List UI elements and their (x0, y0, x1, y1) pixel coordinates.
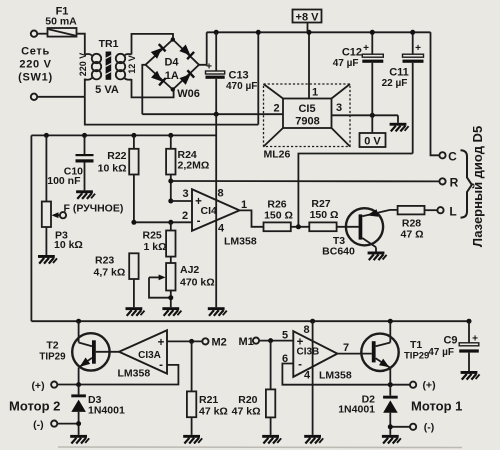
junction R21 (189, 339, 194, 344)
ML26 corner diagonal TR (332, 84, 351, 99)
svg-text:R21: R21 (199, 394, 218, 406)
wire motor2 minus (57, 423, 78, 425)
svg-text:47 µF: 47 µF (428, 347, 454, 358)
wire CI3B output to T1 base (337, 353, 371, 355)
svg-text:LM358: LM358 (118, 368, 151, 380)
junction T1 collector (388, 319, 393, 324)
op-amp CI4 (192, 189, 240, 231)
terminal M2 (202, 338, 208, 344)
wire CI4 pin 3 (171, 200, 192, 202)
junction CI3B power (310, 319, 315, 324)
CI4 power line (pins 8/4) (215, 114, 217, 307)
svg-text:100 nF: 100 nF (47, 175, 81, 187)
label Сеть 220 V (SW1) (18, 46, 53, 84)
ground (R20) (262, 435, 281, 444)
op-amp CI3A (119, 330, 167, 373)
junction C9 (467, 319, 472, 324)
transformer TR1 secondary winding (116, 54, 132, 80)
resistor R20 (266, 341, 275, 435)
svg-text:TIP29: TIP29 (39, 352, 66, 363)
CI3B power line (pins 8/4) (312, 321, 314, 435)
wire R26 to R27 (291, 226, 310, 228)
junction C12 rail (370, 30, 375, 35)
svg-text:12 V: 12 V (127, 55, 137, 74)
svg-text:LM358: LM358 (319, 370, 352, 382)
ML26 corner diagonal BR (332, 128, 351, 147)
ground (P3) (38, 255, 57, 264)
junction CI4 pin3 (168, 199, 173, 204)
wire left feed down to motor rail (30, 135, 32, 321)
wire mains upper to fuse (37, 33, 47, 35)
diode D2 (383, 385, 398, 435)
wire CI3B feedback (282, 364, 410, 385)
svg-text:50 mA: 50 mA (45, 16, 77, 28)
diode bridge top-right (179, 44, 194, 59)
svg-text:2: 2 (182, 210, 188, 222)
resistor R24 (166, 135, 175, 201)
junction R25 top (168, 220, 173, 225)
svg-text:7: 7 (343, 342, 349, 354)
transformer TR1 core (106, 52, 112, 80)
svg-text:CI5: CI5 (298, 103, 315, 115)
junction T2 collector (76, 319, 81, 324)
svg-text:1: 1 (241, 199, 247, 211)
wire CI4 pin 2 (134, 221, 192, 223)
svg-text:5 VA: 5 VA (95, 84, 119, 96)
svg-text:AJ2: AJ2 (180, 264, 199, 276)
junction C10 (82, 133, 87, 138)
svg-text:T2: T2 (46, 340, 58, 352)
svg-text:47 kΩ: 47 kΩ (199, 406, 228, 418)
svg-text:R20: R20 (238, 394, 257, 406)
svg-text:CI3A: CI3A (138, 350, 161, 361)
svg-text:(+): (+) (31, 380, 44, 392)
junction R20 (268, 338, 273, 343)
svg-text:C11: C11 (389, 67, 409, 79)
svg-text:150 Ω: 150 Ω (310, 209, 339, 221)
bridge rectifier D4 diamond (146, 40, 200, 90)
svg-text:1N4001: 1N4001 (88, 405, 125, 417)
svg-text:ML26: ML26 (264, 149, 291, 161)
capacitor C9 (459, 321, 479, 371)
svg-text:2,2MΩ: 2,2MΩ (178, 160, 210, 172)
fuse F1 (48, 28, 77, 37)
svg-text:+: + (415, 43, 421, 54)
svg-text:F (РУЧНОЕ): F (РУЧНОЕ) (64, 203, 124, 215)
terminal motor1 plus (410, 382, 416, 388)
svg-text:+: + (363, 43, 369, 54)
svg-text:C9: C9 (443, 335, 457, 347)
svg-text:(+): (+) (422, 380, 435, 392)
brace laser diode (461, 150, 472, 217)
svg-text:2: 2 (273, 103, 279, 115)
diode D3 (71, 385, 86, 435)
wire motor supply rail (31, 320, 469, 322)
svg-text:47 kΩ: 47 kΩ (232, 406, 261, 418)
resistor R22 (129, 135, 138, 222)
wire mains lower (37, 96, 85, 98)
ground (D2) (382, 435, 401, 444)
op-amp CI3B (293, 331, 337, 377)
wire T3 emitter to R28 (390, 209, 398, 211)
transformer TR1 primary winding (85, 54, 101, 97)
resistor R21 (187, 341, 196, 435)
terminal motor2 minus (51, 421, 57, 427)
ground (C10) (76, 190, 95, 199)
wire riser joining top rail (257, 32, 259, 124)
svg-text:R22: R22 (107, 150, 126, 162)
svg-text:220 V: 220 V (19, 59, 51, 71)
terminal R (439, 178, 445, 184)
wire C terminal feed (431, 32, 440, 155)
svg-text:10 kΩ: 10 kΩ (54, 239, 83, 251)
svg-text:(SW1): (SW1) (18, 72, 53, 84)
ground (R21) (183, 435, 202, 444)
svg-text:10 kΩ: 10 kΩ (98, 163, 127, 175)
svg-text:C13: C13 (229, 70, 249, 82)
svg-text:-: - (298, 359, 302, 371)
resistor R27 (309, 222, 336, 231)
svg-text:BC640: BC640 (322, 246, 355, 258)
svg-text:T1: T1 (410, 339, 422, 351)
svg-text:(-): (-) (424, 422, 435, 434)
diode bridge bottom-left (151, 71, 166, 86)
svg-text:1A: 1A (165, 70, 179, 82)
junction pin1 rail (307, 30, 312, 35)
ground (CI4 pin4) (208, 307, 227, 316)
wire mains-side lower line (85, 97, 258, 125)
junction C13 top (214, 30, 219, 35)
wire CI3A + input to M2 (167, 340, 202, 342)
svg-text:(-): (-) (33, 419, 44, 431)
junction T2 emitter / feedback (76, 382, 81, 387)
wire CI4 output to R26 (240, 210, 264, 226)
svg-text:4,7 kΩ: 4,7 kΩ (94, 267, 126, 279)
svg-text:M1: M1 (239, 336, 254, 348)
svg-text:+8 V: +8 V (296, 12, 320, 24)
junction C11 rail (410, 30, 415, 35)
svg-text:470 µF: 470 µF (226, 81, 257, 92)
resistor R23 (129, 253, 138, 307)
regulator module ML26 outer box (264, 84, 351, 147)
terminal L (437, 207, 443, 213)
svg-text:8: 8 (303, 324, 309, 336)
svg-text:L: L (449, 205, 456, 219)
capacitor C10 (76, 135, 94, 190)
svg-text:R25: R25 (143, 230, 162, 242)
wire regulator pin 1 to rail (308, 32, 310, 98)
junction motor1 minus (388, 424, 393, 429)
wire bridge - output to lower rail (142, 65, 145, 114)
svg-text:4: 4 (304, 370, 311, 382)
wire regulator pin 3 (332, 114, 399, 116)
junction R26/R27 0V node (296, 224, 301, 229)
svg-text:3: 3 (336, 102, 342, 114)
junction R22 (131, 133, 136, 138)
wire 0V net to R26/R27 node (298, 154, 412, 227)
svg-text:150 Ω: 150 Ω (264, 210, 293, 222)
svg-text:C12: C12 (342, 47, 362, 59)
wire middle supply rail (31, 134, 216, 136)
svg-text:+: + (472, 334, 478, 345)
svg-text:+: + (158, 337, 165, 349)
svg-text:-: - (197, 216, 201, 228)
wire R28 to terminal L (425, 209, 438, 211)
junction P3 (44, 133, 49, 138)
transistor T3 (346, 208, 390, 251)
ground (CI3B pin4) (304, 435, 323, 444)
svg-text:R: R (450, 176, 459, 190)
svg-text:CI3B: CI3B (297, 347, 320, 358)
svg-text:TIP29: TIP29 (404, 351, 429, 362)
transistor T2 (72, 321, 109, 384)
diode bridge top-left (151, 44, 166, 59)
ML26 corner diagonal BL (264, 128, 284, 147)
svg-text:1N4001: 1N4001 (338, 404, 375, 416)
P3 wiper terminal F (52, 212, 67, 218)
potentiometer P3 (42, 135, 51, 255)
junction R22/R23 pin2 (131, 220, 136, 225)
svg-text:47 Ω: 47 Ω (400, 229, 423, 241)
wire bridge + output to top rail (199, 32, 207, 65)
junction top rail / riser (256, 30, 261, 35)
junction R24 / R feedback line (168, 179, 173, 184)
svg-text:470 kΩ: 470 kΩ (180, 277, 215, 289)
svg-text:1 kΩ: 1 kΩ (144, 241, 167, 253)
svg-text:22 µF: 22 µF (382, 78, 408, 89)
ML26 corner diagonal TL (264, 84, 284, 99)
node +8V box (293, 10, 322, 33)
wire CI3A output to T2 base (96, 351, 119, 353)
scan streak bottom (58, 446, 462, 449)
resistor R28 (398, 206, 425, 215)
ground (AJ2) (162, 307, 181, 316)
svg-text:-: - (159, 360, 163, 372)
wire secondary top to bridge (132, 34, 174, 55)
junction bridge top vertex (171, 37, 175, 41)
svg-text:+: + (206, 62, 212, 73)
svg-text:Мотор 2: Мотор 2 (9, 399, 60, 414)
wire CI3A feedback (57, 365, 178, 385)
capacitor C11 (403, 32, 424, 153)
terminal motor1 minus (410, 424, 416, 430)
wire lower rail to regulator pin 2 (142, 113, 283, 115)
capacitor C12 (362, 32, 383, 115)
junction T1 emitter / feedback (388, 382, 393, 387)
mains terminal lower (31, 94, 37, 100)
wire motor1 minus (390, 426, 410, 428)
svg-text:8: 8 (217, 188, 223, 200)
ground (D3) (70, 435, 89, 444)
svg-text:LM358: LM358 (224, 236, 257, 248)
junction bridge bottom vertex (171, 87, 175, 91)
svg-text:R23: R23 (95, 255, 114, 267)
ground (R23) (125, 307, 144, 316)
svg-text:4: 4 (218, 223, 225, 235)
svg-text:Мотор 1: Мотор 1 (411, 399, 462, 414)
svg-text:M2: M2 (212, 337, 227, 349)
svg-text:7908: 7908 (295, 116, 319, 128)
ground (C9) (461, 371, 480, 380)
svg-text:CI4: CI4 (201, 205, 218, 217)
junction R24 (168, 133, 173, 138)
wire to terminal R (171, 180, 440, 182)
wire M1 to CI3B (259, 340, 293, 342)
svg-text:C: C (448, 150, 457, 164)
junction C13 bottom (214, 112, 219, 117)
wire +8V top rail (207, 31, 431, 33)
wire R27 to T3 base (337, 226, 359, 228)
svg-text:1: 1 (312, 87, 318, 99)
transistor T1 (361, 321, 398, 385)
junction motor2 minus (76, 421, 81, 426)
svg-text:TR1: TR1 (99, 38, 119, 50)
svg-text:Лазерный диод D5: Лазерный диод D5 (470, 126, 485, 247)
trimmer AJ2 (149, 263, 176, 307)
junction pin3 / C12 (370, 113, 375, 118)
regulator CI5 7908 body (283, 99, 332, 129)
svg-text:47 µF: 47 µF (333, 58, 359, 69)
wire fuse to transformer primary (77, 34, 85, 55)
resistor R25 (166, 222, 175, 263)
wire secondary bottom to bridge (132, 79, 174, 97)
svg-text:3: 3 (182, 188, 188, 200)
svg-text:Сеть: Сеть (21, 46, 50, 58)
resistor R26 (264, 222, 291, 231)
svg-text:0 V: 0 V (364, 136, 381, 148)
capacitor C13 (206, 32, 225, 114)
ground (regulator) (390, 115, 409, 131)
mains terminal upper SW1 (31, 31, 37, 37)
svg-text:5: 5 (282, 330, 288, 342)
svg-text:D4: D4 (164, 57, 179, 69)
diode bridge bottom-right (179, 70, 194, 85)
svg-text:W06: W06 (177, 88, 200, 100)
node 0V box (360, 115, 386, 147)
terminal motor2 plus (51, 382, 57, 388)
terminal C (439, 152, 445, 158)
terminal M1 (253, 338, 259, 344)
svg-text:220 V: 220 V (78, 53, 88, 77)
ground (T3) (368, 252, 387, 261)
